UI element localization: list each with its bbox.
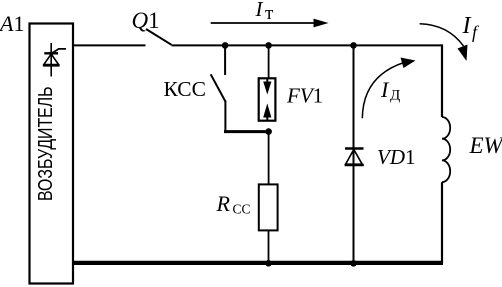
wire right side lower: [441, 182, 443, 263]
inductor EW: [442, 117, 450, 182]
wire Rcc to bottom bus: [268, 230, 270, 263]
svg-text:Q1: Q1: [132, 8, 160, 33]
wire top from Q1 to right corner: [172, 44, 443, 46]
svg-text:I: I: [255, 0, 264, 21]
current It arrow: [211, 19, 329, 28]
svg-text:VD1: VD1: [377, 145, 416, 169]
svg-text:ВОЗБУДИТЕЛЬ: ВОЗБУДИТЕЛЬ: [35, 87, 57, 202]
svg-text:КСС: КСС: [164, 77, 207, 101]
svg-text:т: т: [265, 3, 274, 24]
wire KCC upper: [224, 45, 226, 75]
node: junction top of FV1 branch: [265, 42, 272, 49]
svg-text:СС: СС: [233, 202, 251, 217]
arrester FV1: [259, 78, 276, 120]
resistor Rcc: [259, 184, 278, 230]
node: junction top of VD1 branch: [350, 42, 357, 49]
exciter box A1: [30, 24, 74, 284]
svg-text:EW: EW: [469, 133, 502, 158]
thyristor symbol inside exciter: [43, 43, 66, 77]
node: junction top of KCC branch: [222, 42, 229, 49]
wire top-left from exciter to Q1: [73, 44, 146, 46]
switch KCC blade: [211, 74, 226, 101]
switch Q1 blade: [146, 29, 172, 45]
node: junction VD1 bottom: [350, 260, 357, 267]
svg-text:FV1: FV1: [286, 84, 323, 108]
wire KCC lower: [224, 101, 226, 132]
wire FV1 to Rcc: [268, 132, 270, 185]
current If curved arrow: [420, 24, 464, 46]
bottom bus wire: [73, 261, 443, 265]
node: junction Rcc bottom: [265, 260, 272, 267]
diode VD1: [345, 149, 364, 166]
svg-text:Д: Д: [390, 88, 400, 104]
svg-text:А1: А1: [0, 11, 24, 36]
svg-text:I: I: [462, 13, 472, 39]
current Id curved arrow: [362, 63, 404, 119]
node: junction FV1/KCC/Rcc: [265, 128, 272, 135]
wire VD1 branch vertical: [353, 45, 355, 263]
wire FV1 upper: [268, 45, 270, 78]
svg-text:R: R: [216, 191, 231, 216]
wire right side upper: [441, 44, 443, 117]
wire KCC to FV1 bottom (thick): [224, 130, 269, 133]
